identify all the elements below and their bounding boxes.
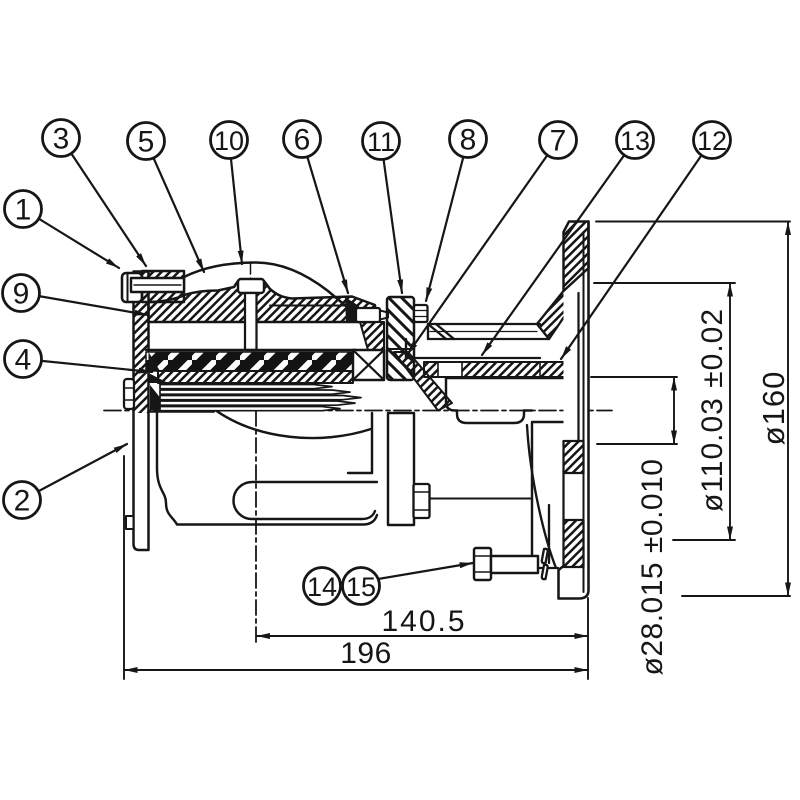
horizontal centerline — [104, 410, 612, 412]
svg-text:4: 4 — [15, 344, 32, 377]
balloon 15 — [343, 568, 380, 605]
loose bolt (items 14,15) — [474, 548, 538, 580]
leader 3 — [61, 138, 146, 266]
extension line pilot dia top — [594, 282, 735, 284]
bearing housing front column — [388, 413, 414, 525]
extension line shaft dia top — [591, 376, 677, 378]
leader 13 — [482, 140, 635, 355]
balloon 9 — [3, 275, 40, 312]
rear web line — [527, 425, 558, 568]
svg-text:14: 14 — [307, 572, 337, 602]
hub (item 12) — [446, 378, 583, 568]
leader 4 — [23, 359, 152, 372]
leader 2 — [22, 444, 127, 500]
dimension dia110.03 line — [729, 283, 731, 540]
svg-text:ø110.03 ±0.02: ø110.03 ±0.02 — [696, 308, 729, 512]
cover clamp bolt assembly (items 1,3) — [122, 271, 184, 302]
leader 10 — [229, 140, 242, 264]
bearing spacer tube — [406, 324, 549, 358]
leader 6 — [302, 139, 348, 293]
extension line flange rear face — [587, 598, 589, 679]
small bolt (item 8) — [414, 305, 428, 322]
svg-text:7: 7 — [550, 125, 567, 158]
corner wedge right of liner band — [360, 322, 384, 350]
vertical centerline impeller — [255, 384, 257, 646]
dimension 140.5 line — [257, 635, 589, 637]
svg-text:10: 10 — [214, 126, 244, 156]
balloon 13 — [617, 122, 654, 159]
splined shaft — [160, 385, 361, 411]
extension line shaft dia bottom — [597, 443, 677, 445]
impeller bore arc (cavity top) — [211, 407, 371, 438]
balloon 12 — [694, 122, 731, 159]
leader 12 — [561, 140, 712, 359]
balloon 3 — [43, 120, 80, 157]
balloon 10 — [211, 122, 248, 159]
leader 1 — [23, 209, 119, 268]
grease bolt (item 7 front) — [414, 484, 533, 518]
angled housing wall — [394, 352, 452, 411]
svg-text:15: 15 — [346, 572, 376, 602]
balloon 4 — [5, 341, 42, 378]
balloon 1 — [5, 191, 42, 228]
balloon 2 — [4, 482, 41, 519]
balloon 11 — [363, 123, 400, 160]
svg-text:13: 13 — [620, 126, 650, 156]
svg-text:196: 196 — [340, 637, 392, 670]
black corner wedges at left — [149, 352, 161, 371]
elbow neck to flange — [537, 291, 576, 339]
dimension 196 line — [124, 669, 588, 671]
balloon 7 — [540, 122, 577, 159]
balloon 8 — [450, 121, 487, 158]
liner band below cover — [146, 349, 356, 351]
bearing cross-hatched box (item 7) — [353, 350, 384, 380]
dome arc of cover — [184, 263, 347, 308]
svg-text:1: 1 — [15, 194, 32, 227]
balloon 6 — [284, 121, 321, 158]
vertical centerline cover screw — [250, 262, 252, 352]
extension line pilot dia bottom — [673, 539, 735, 541]
svg-text:ø28.015 ±0.010: ø28.015 ±0.010 — [636, 459, 669, 676]
cam (black band, item 4) — [146, 352, 353, 371]
split pin — [542, 549, 548, 579]
leader 9 — [21, 293, 148, 315]
body interior outline — [149, 412, 378, 525]
svg-text:11: 11 — [367, 127, 395, 157]
cover screw boss and screw (item 10) — [238, 279, 264, 350]
balloon 5 — [128, 123, 165, 160]
right clamp bolt at cover end — [345, 297, 388, 322]
svg-text:5: 5 — [138, 126, 155, 159]
extension line flange OD bottom — [682, 595, 790, 597]
small tab at plate bottom — [126, 516, 134, 529]
extension line flange OD top — [596, 221, 790, 223]
shaft sleeve hatched strip (item 13) — [424, 362, 583, 377]
svg-text:3: 3 — [53, 123, 70, 156]
wear plate hatched band — [158, 371, 353, 383]
leader 7 — [407, 140, 558, 355]
pump body left plate — [134, 272, 149, 551]
svg-text:2: 2 — [14, 485, 31, 518]
cover plate cross-section (item 5) — [149, 281, 376, 322]
dimension dia160 line — [787, 222, 789, 597]
mounting flange (right) — [559, 222, 589, 599]
cam pocket slot — [234, 482, 377, 519]
leader 15 — [378, 563, 473, 579]
svg-text:9: 9 — [13, 278, 30, 311]
cover/body parting line — [270, 305, 352, 307]
balloon 14 — [304, 568, 341, 605]
seal housing block (items 6,11) — [387, 297, 414, 380]
dimension dia28.015 line — [673, 377, 675, 444]
extension line body left face — [123, 456, 125, 679]
svg-text:6: 6 — [294, 124, 311, 157]
svg-text:12: 12 — [697, 126, 727, 156]
left cam bolt — [124, 379, 134, 409]
svg-text:140.5: 140.5 — [381, 605, 466, 638]
svg-text:ø160: ø160 — [756, 371, 791, 446]
svg-text:8: 8 — [460, 124, 477, 157]
leader 11 — [381, 141, 402, 293]
leader 8 — [426, 139, 468, 301]
leader 5 — [146, 141, 204, 272]
